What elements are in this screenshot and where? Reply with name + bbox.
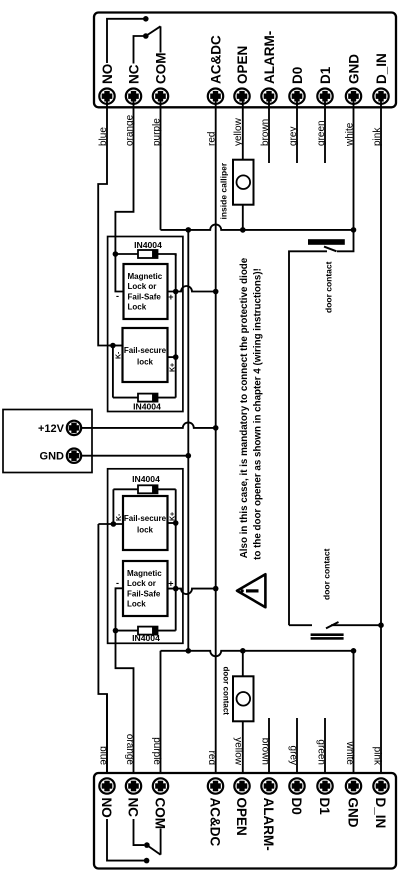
relay NO contact wire (bottom) bbox=[107, 819, 144, 861]
wire blue NO (top) bbox=[98, 96, 111, 346]
svg-text:brown: brown bbox=[260, 738, 271, 765]
relay COM wire (top) bbox=[160, 26, 162, 52]
diode D1b IN4004 (upper bottom) bbox=[138, 394, 158, 402]
magnetic lock box (lower) bbox=[123, 561, 168, 616]
svg-text:door contact: door contact bbox=[321, 548, 331, 600]
wire red AC&DC (+12V net) bbox=[215, 96, 217, 428]
wire lower top diode right lead bbox=[158, 488, 176, 490]
node: yellow2 joins net (bottom) bbox=[240, 648, 246, 654]
node: yellow joins net (top) bbox=[240, 227, 246, 233]
svg-text:OPEN: OPEN bbox=[235, 46, 250, 84]
svg-text:to the door opener as shown in: to the door opener as shown in chapter 4… bbox=[253, 268, 264, 560]
svg-text:door contact: door contact bbox=[222, 667, 231, 716]
wire lower magnetic + to +12V net bbox=[168, 589, 216, 595]
terminal screw D0 (top) bbox=[289, 89, 304, 104]
wire blue2 NO (bottom) bbox=[106, 694, 108, 786]
svg-text:-: - bbox=[116, 291, 119, 301]
wire green2 D1 stub (bottom) bbox=[324, 718, 326, 786]
wire orange2 lock - terminal riser bbox=[116, 588, 124, 630]
svg-text:NC: NC bbox=[126, 64, 141, 84]
wire door contact 1 to chain bbox=[289, 251, 327, 625]
svg-text:blue: blue bbox=[98, 746, 109, 765]
terminal screw GND bbox=[67, 449, 81, 463]
terminal screw D1 (bottom) bbox=[317, 778, 332, 793]
node: + net joins +12V column (upper) bbox=[213, 289, 219, 295]
svg-text:ALARM-: ALARM- bbox=[262, 31, 277, 84]
svg-text:GND: GND bbox=[40, 451, 65, 463]
wire upper bottom diode left lead bbox=[113, 397, 138, 399]
terminal screw ALARM- (bottom) bbox=[261, 778, 276, 793]
svg-text:D1: D1 bbox=[317, 798, 332, 816]
svg-text:GND: GND bbox=[346, 798, 361, 828]
node: contact chain joins pink bbox=[378, 622, 384, 628]
wire +12V net column (lower part) bbox=[215, 428, 217, 786]
svg-text:NO: NO bbox=[100, 64, 115, 84]
svg-text:IN4004: IN4004 bbox=[132, 474, 160, 484]
lower lock assembly enclosure box bbox=[108, 469, 183, 644]
wire chain to door contact 2 bbox=[289, 624, 312, 626]
wire GND to COM net bbox=[81, 455, 188, 457]
relay NO contact wire (top) bbox=[107, 19, 143, 63]
terminal screw OPEN (bottom) bbox=[234, 778, 249, 793]
door contact 2 switch lever bbox=[326, 622, 339, 628]
fail-secure lock box (lower) bbox=[123, 496, 168, 550]
node: GND-net column joins (top) bbox=[186, 227, 192, 233]
svg-text:D_IN: D_IN bbox=[373, 798, 388, 829]
relay lever (top) bbox=[146, 26, 161, 36]
terminal screw +12V bbox=[67, 421, 81, 435]
svg-text:red: red bbox=[206, 751, 217, 765]
relay COM wire (bottom) bbox=[160, 829, 162, 855]
svg-text:inside calliper: inside calliper bbox=[218, 162, 228, 219]
terminal screw ALARM- (top) bbox=[261, 89, 276, 104]
wire +12V to red net bbox=[81, 422, 216, 427]
svg-text:COM: COM bbox=[153, 53, 168, 85]
node: COM column joins net (bottom) bbox=[186, 648, 192, 654]
svg-text:pink: pink bbox=[372, 747, 383, 766]
svg-text:COM: COM bbox=[153, 798, 168, 830]
wire K- terminal (upper) bbox=[109, 345, 123, 347]
terminal screw GND (top) bbox=[346, 89, 361, 104]
svg-text:yellow: yellow bbox=[233, 737, 244, 766]
wire white GND (top) bbox=[353, 96, 355, 230]
wire lower top diode left lead bbox=[113, 488, 138, 490]
svg-text:green: green bbox=[316, 739, 327, 765]
svg-text:D0: D0 bbox=[289, 798, 304, 815]
wire orange NC (top) bbox=[115, 96, 133, 252]
node: relay NO fixed contact (top) bbox=[143, 16, 149, 22]
wire K+ terminal (upper) bbox=[168, 356, 176, 358]
push button actuator circle bbox=[237, 175, 251, 189]
diode D1a IN4004 (upper top) bbox=[138, 250, 158, 258]
svg-text:OPEN: OPEN bbox=[234, 798, 249, 836]
node: white joins net (top) bbox=[351, 227, 357, 233]
wire yellow through button to net bbox=[242, 205, 244, 230]
node: relay NO fixed contact (bottom) bbox=[144, 858, 150, 864]
terminal screw COM (bottom) bbox=[153, 778, 168, 793]
wire K- terminal (lower) bbox=[98, 523, 123, 525]
door contact 1 magnet bar bbox=[308, 239, 345, 245]
svg-text:K-: K- bbox=[115, 351, 122, 359]
svg-text:+: + bbox=[168, 579, 173, 589]
svg-text:D0: D0 bbox=[290, 67, 305, 84]
terminal screw AC&amp;DC (top) bbox=[208, 89, 223, 104]
svg-text:D1: D1 bbox=[318, 66, 333, 84]
terminal screw NO (top) bbox=[99, 89, 114, 104]
wire K- to lower diode lead (upper) bbox=[112, 346, 114, 398]
wire K+ terminal (lower) bbox=[168, 522, 176, 524]
svg-text:NC: NC bbox=[126, 798, 141, 818]
wire diode to K- junction (lower) bbox=[112, 489, 114, 524]
wire upper magnetic + to +12V net bbox=[168, 286, 216, 292]
wire upper bottom diode right lead bbox=[158, 397, 176, 399]
wire grey D0 stub (top) bbox=[296, 96, 298, 163]
wire yellow2 OPEN (bottom) bbox=[242, 721, 244, 786]
wire lower bottom diode right lead bbox=[158, 630, 176, 632]
terminal block J2 (bottom controller) bbox=[94, 773, 396, 869]
wire + net column (upper assembly) bbox=[175, 254, 177, 398]
svg-text:+12V: +12V bbox=[38, 423, 65, 435]
wire yellow OPEN (top) bbox=[242, 96, 244, 160]
wire + net column (lower assembly) bbox=[175, 489, 177, 630]
relay NC contact wire (top) bbox=[134, 36, 144, 64]
terminal screw D1 (top) bbox=[317, 89, 332, 104]
relay NC contact wire (bottom) bbox=[134, 819, 145, 845]
wire upper top diode left lead bbox=[115, 253, 138, 255]
svg-text:door contact: door contact bbox=[323, 261, 333, 313]
svg-text:IN4004: IN4004 bbox=[133, 402, 161, 412]
door contact 2 magnet bar b bbox=[311, 637, 344, 640]
terminal screw AC&amp;DC (bottom) bbox=[208, 778, 223, 793]
svg-text:-: - bbox=[116, 578, 119, 588]
svg-text:D_IN: D_IN bbox=[374, 53, 389, 84]
terminal screw NC (bottom) bbox=[126, 778, 141, 793]
wire lower bottom diode left lead bbox=[116, 630, 139, 632]
diode D2b IN4004 (lower bottom) bbox=[138, 627, 158, 635]
wire purple2 COM (bottom) bbox=[160, 651, 162, 786]
wire purple COM (top) bbox=[160, 96, 162, 230]
diode D2a IN4004 (lower top) bbox=[138, 485, 158, 493]
terminal screw COM (top) bbox=[153, 89, 168, 104]
svg-text:K-: K- bbox=[116, 513, 123, 521]
wire pink D_IN bbox=[380, 96, 382, 786]
wire blue2 riser from K- (lower) bbox=[98, 524, 107, 786]
wire purple2-white2 horizontal net (bottom) bbox=[161, 651, 354, 657]
wire GND/COM net column bbox=[187, 230, 189, 651]
svg-text:Also in this case, it is manda: Also in this case, it is mandatory to co… bbox=[239, 257, 250, 558]
terminal block J1 (top controller) bbox=[94, 13, 396, 108]
terminal screw NO (bottom) bbox=[99, 778, 114, 793]
magnetic lock box (upper) bbox=[124, 264, 168, 319]
svg-text:orange: orange bbox=[124, 734, 135, 766]
node: orange to diode junction (upper) bbox=[113, 251, 119, 257]
wire yellow2 button to net (bottom) bbox=[242, 651, 244, 677]
terminal screw D0 (bottom) bbox=[289, 778, 304, 793]
svg-text:ALARM-: ALARM- bbox=[261, 798, 276, 851]
node: GND joins COM column bbox=[186, 453, 192, 459]
node: K+ joins + net (lower) bbox=[173, 520, 179, 526]
upper lock assembly enclosure box bbox=[108, 237, 183, 412]
node: + net junction at diode column (upper) bbox=[173, 289, 179, 295]
wire grey2 D0 stub (bottom) bbox=[296, 718, 298, 786]
wire brown ALARM- stub (top) bbox=[268, 96, 270, 163]
terminal screw D_IN (bottom) bbox=[373, 778, 388, 793]
svg-text:+: + bbox=[168, 292, 173, 302]
svg-text:IN4004: IN4004 bbox=[134, 240, 162, 250]
svg-text:AC&DC: AC&DC bbox=[208, 798, 223, 847]
fail-secure lock box (upper) bbox=[123, 328, 168, 382]
svg-text:NO: NO bbox=[99, 798, 114, 818]
door contact 1 switch lever bbox=[324, 247, 337, 252]
wire orange continues to lock - terminal bbox=[115, 254, 123, 292]
push button: inside calliper bbox=[233, 160, 254, 205]
node: orange2 to diode junction (lower) bbox=[113, 628, 119, 634]
door contact button circle bbox=[237, 692, 251, 706]
wire door contact 2 to pink bbox=[331, 624, 381, 626]
node: + net joins +12V column (lower) bbox=[213, 586, 219, 592]
svg-text:GND: GND bbox=[346, 54, 361, 84]
warning exclamation mark bbox=[241, 589, 259, 592]
wire green D1 stub (top) bbox=[324, 96, 326, 163]
door contact 2 magnet bar a bbox=[311, 633, 344, 636]
relay lever (bottom) bbox=[147, 845, 161, 855]
node: K+ joins + net (upper) bbox=[173, 354, 179, 360]
node: white2 joins net (bottom) bbox=[351, 648, 357, 654]
node: relay NC fixed contact (top) bbox=[143, 33, 149, 39]
svg-text:IN4004: IN4004 bbox=[132, 633, 160, 643]
terminal screw NC (top) bbox=[126, 89, 141, 104]
node: +12V joins red column bbox=[213, 425, 219, 431]
node: relay NC fixed contact (bottom) bbox=[144, 842, 150, 848]
terminal screw D_IN (top) bbox=[373, 89, 388, 104]
node: K- junction blue/diode (upper) bbox=[110, 343, 116, 349]
svg-text:AC&DC: AC&DC bbox=[208, 35, 223, 84]
wire white2 GND (bottom) bbox=[353, 651, 355, 786]
push button: door contact (bottom yellow) bbox=[233, 676, 254, 721]
wire white to door contact 1 bbox=[337, 230, 354, 251]
svg-text:K+: K+ bbox=[169, 363, 176, 372]
node: + net junction at diode column (lower) bbox=[173, 586, 179, 592]
power supply box bbox=[3, 410, 92, 473]
wire brown2 ALARM- stub (bottom) bbox=[268, 718, 270, 786]
wire orange2 NC (bottom) bbox=[116, 632, 134, 786]
terminal screw OPEN (top) bbox=[234, 89, 249, 104]
node: K- junction (lower) bbox=[111, 521, 117, 527]
svg-text:white: white bbox=[344, 741, 355, 766]
svg-text:grey: grey bbox=[288, 746, 299, 765]
svg-text:purple: purple bbox=[151, 737, 162, 765]
terminal screw GND (bottom) bbox=[346, 778, 361, 793]
warning triangle bbox=[237, 574, 265, 607]
wire purple-white horizontal net (top) bbox=[161, 224, 354, 230]
wire upper top diode right lead bbox=[158, 254, 176, 256]
